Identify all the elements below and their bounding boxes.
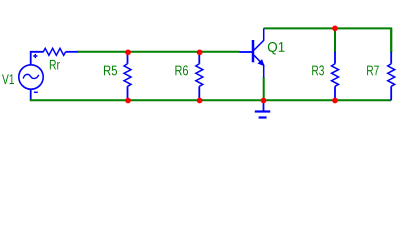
- junction dot R6 bottom: [197, 98, 203, 104]
- label R7: [367, 66, 379, 76]
- wire bottom net: [30, 99, 391, 101]
- label Q1: [268, 42, 285, 54]
- label Rr: [50, 60, 60, 70]
- junction dot emitter: [261, 98, 267, 104]
- label R5: [104, 66, 117, 76]
- resistor Rr: [43, 48, 78, 55]
- wire R7 top: [390, 28, 392, 52]
- transistor Q1: [240, 28, 265, 77]
- junction dot R3 top: [332, 26, 338, 32]
- label R6: [175, 65, 188, 75]
- resistor R6: [196, 52, 203, 100]
- resistor R7: [388, 52, 395, 100]
- junction dot R5 top: [125, 49, 131, 55]
- voltage source V1: [19, 52, 44, 100]
- ground: [255, 100, 270, 117]
- resistor R5: [124, 52, 131, 100]
- junction dot R5 bottom: [125, 98, 131, 104]
- wire emitter: [263, 77, 265, 100]
- label V1: [2, 74, 14, 84]
- label R3: [312, 65, 324, 75]
- wire R3 top: [334, 28, 336, 52]
- wire top net: [264, 28, 392, 52]
- wire base net: [78, 51, 240, 53]
- junction dot R6 top: [197, 49, 203, 55]
- resistor R3: [332, 52, 339, 100]
- junction dot R3 bottom: [332, 98, 338, 104]
